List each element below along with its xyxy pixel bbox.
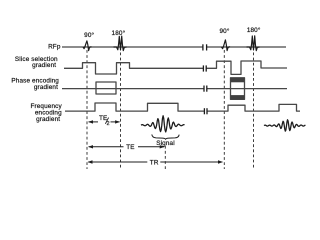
svg-text:Signal: Signal (156, 140, 175, 147)
svg-text:TR: TR (150, 159, 159, 166)
svg-text:gradient: gradient (36, 116, 60, 123)
svg-text:180°: 180° (112, 29, 126, 37)
svg-text:TE: TE (126, 144, 134, 151)
svg-text:gradient: gradient (32, 62, 56, 69)
svg-text:RFp: RFp (48, 44, 61, 51)
svg-text:gradient: gradient (34, 84, 58, 91)
svg-text:2: 2 (107, 121, 110, 127)
svg-text:90°: 90° (219, 27, 229, 35)
svg-text:180°: 180° (247, 26, 261, 34)
svg-text:90°: 90° (84, 31, 94, 39)
